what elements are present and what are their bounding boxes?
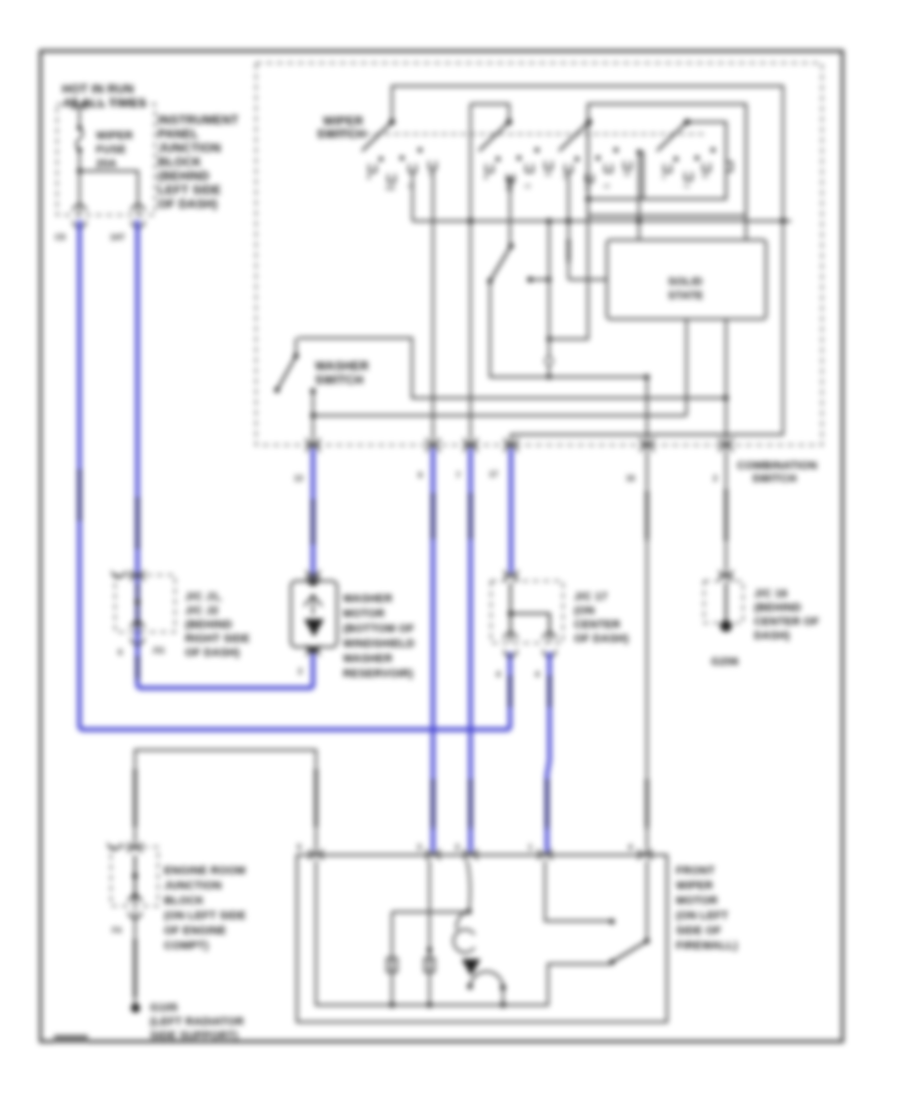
motor connector cups bbox=[310, 849, 323, 860]
wire contact to bus bbox=[412, 172, 414, 221]
motor brush right bbox=[425, 860, 435, 1005]
label instrument panel junction block bbox=[158, 113, 239, 211]
svg-text:J/C 17: J/C 17 bbox=[574, 591, 608, 603]
svg-text:FRONT: FRONT bbox=[676, 865, 715, 877]
wire HI long bbox=[470, 104, 472, 447]
wire relay left pin bbox=[569, 279, 608, 281]
wire blue exit 17 bbox=[509, 448, 513, 573]
wire washer to relay bbox=[313, 415, 687, 417]
svg-text:16: 16 bbox=[626, 474, 635, 483]
label J/C 17 bbox=[574, 591, 629, 645]
bus wire bbox=[413, 220, 792, 222]
wiper switch lever 4 bbox=[637, 119, 691, 155]
svg-text:SWITCH: SWITCH bbox=[752, 473, 797, 485]
wire bus drop bbox=[545, 221, 569, 380]
svg-text:(ON: (ON bbox=[574, 605, 595, 617]
svg-text:+1: +1 bbox=[683, 184, 689, 190]
svg-text:(ON LEFT: (ON LEFT bbox=[676, 910, 728, 922]
rect B washer linked switch bbox=[588, 122, 726, 199]
circuit breaker loop bbox=[454, 912, 506, 1006]
label washer motor bbox=[343, 593, 415, 680]
motor brush left bbox=[387, 912, 397, 1005]
svg-text:C: C bbox=[563, 175, 567, 181]
svg-text:DASH): DASH) bbox=[754, 630, 790, 642]
washer switch contact bbox=[310, 388, 315, 447]
svg-text:WIPER: WIPER bbox=[96, 130, 133, 142]
svg-text:17: 17 bbox=[489, 470, 498, 479]
svg-text:G105: G105 bbox=[150, 1002, 178, 1014]
svg-text:SIDE SUPPORT): SIDE SUPPORT) bbox=[150, 1030, 238, 1042]
svg-text:J/C J1,: J/C J1, bbox=[185, 591, 222, 603]
wire relay pin to exit 16 bbox=[646, 377, 648, 447]
mechanical link dashed bbox=[318, 133, 705, 135]
boundary connector 2 bbox=[720, 438, 733, 452]
svg-text:WASHER: WASHER bbox=[343, 593, 392, 605]
svg-text:6: 6 bbox=[118, 648, 123, 657]
svg-text:4: 4 bbox=[496, 670, 501, 679]
svg-text:WASHER: WASHER bbox=[315, 359, 369, 373]
svg-text:LEFT SIDE: LEFT SIDE bbox=[158, 183, 221, 197]
wire stub node 2 bbox=[527, 277, 549, 283]
svg-text:J/C 16: J/C 16 bbox=[754, 588, 788, 600]
svg-text:2: 2 bbox=[713, 474, 718, 483]
svg-text:INSTRUMENT: INSTRUMENT bbox=[158, 113, 239, 127]
connector C9 bbox=[73, 205, 86, 228]
wire gray exit 2 to ground bbox=[725, 448, 727, 578]
svg-text:SIDE OF: SIDE OF bbox=[676, 925, 721, 937]
svg-text:2: 2 bbox=[455, 843, 460, 852]
svg-text:OF DASH): OF DASH) bbox=[185, 647, 240, 659]
svg-text:SOLID: SOLID bbox=[668, 276, 703, 288]
label front wiper motor bbox=[676, 865, 738, 952]
svg-text:J/C J2: J/C J2 bbox=[185, 605, 219, 617]
switch 4 contacts bbox=[662, 148, 715, 190]
wire INT feed bbox=[509, 176, 511, 246]
switch 1 contacts bbox=[367, 148, 436, 192]
node HOT IN RUN header bbox=[62, 82, 147, 110]
svg-text:(BEHIND: (BEHIND bbox=[185, 619, 232, 631]
svg-text:J11: J11 bbox=[152, 646, 165, 655]
engine room J/B dashed box bbox=[108, 842, 158, 935]
svg-text:20A: 20A bbox=[96, 158, 117, 170]
svg-text:G206: G206 bbox=[711, 656, 739, 668]
wire rectB bottom drop bbox=[549, 199, 588, 339]
boundary connector 7 bbox=[464, 438, 477, 452]
svg-text:4: 4 bbox=[535, 670, 540, 679]
svg-text:(BEHIND: (BEHIND bbox=[754, 602, 801, 614]
wire top feed bbox=[392, 86, 783, 221]
svg-text:F4: F4 bbox=[112, 926, 122, 935]
solid state relay box bbox=[607, 240, 766, 319]
svg-text:(ON LEFT SIDE: (ON LEFT SIDE bbox=[164, 910, 246, 922]
connector 1H7 bbox=[132, 205, 145, 228]
wire INT out bbox=[490, 281, 647, 377]
svg-text:CENTER OF: CENTER OF bbox=[754, 616, 819, 628]
wire riser switch2 bbox=[471, 104, 510, 122]
svg-text:+S: +S bbox=[623, 172, 630, 178]
wire fuse to 1H7 bbox=[80, 171, 139, 215]
connector cup fuse top bbox=[73, 101, 86, 110]
svg-text:BLOCK: BLOCK bbox=[158, 155, 202, 169]
junction connector J/C 16 dashed box bbox=[704, 570, 743, 623]
svg-text:C9: C9 bbox=[55, 233, 66, 242]
wire J/B to ground bbox=[134, 910, 136, 1004]
wire gray exit 16 to motor bbox=[646, 448, 648, 852]
svg-text:WINDSHIELD: WINDSHIELD bbox=[343, 638, 415, 650]
wire blue fuse left run bbox=[80, 220, 511, 730]
svg-text:JUNCTION: JUNCTION bbox=[164, 880, 222, 892]
svg-text:JUNCTION: JUNCTION bbox=[158, 141, 221, 155]
label engine room junction block bbox=[164, 865, 246, 952]
wire LO long bbox=[432, 169, 434, 447]
svg-text:(BEHIND: (BEHIND bbox=[158, 169, 210, 183]
svg-text:+2: +2 bbox=[524, 184, 530, 190]
svg-text:1: 1 bbox=[528, 843, 533, 852]
svg-text:COMBINATION: COMBINATION bbox=[737, 460, 817, 472]
svg-text:13: 13 bbox=[294, 474, 303, 483]
washer switch bbox=[274, 338, 726, 398]
svg-text:+S: +S bbox=[701, 174, 708, 180]
svg-text:MOTOR: MOTOR bbox=[676, 895, 718, 907]
svg-text:C: C bbox=[662, 175, 666, 181]
wire blue J/C17 right out bbox=[547, 652, 550, 852]
svg-text:9: 9 bbox=[418, 471, 423, 480]
terminal on rect B edge bbox=[726, 162, 732, 171]
svg-text:7: 7 bbox=[456, 471, 461, 480]
svg-text:(BOTTOM OF: (BOTTOM OF bbox=[343, 623, 415, 635]
switch 3 contacts bbox=[563, 148, 631, 192]
svg-text:+S: +S bbox=[544, 172, 551, 178]
wire blue exit 7 to motor bbox=[468, 448, 472, 852]
svg-text:4: 4 bbox=[628, 843, 633, 852]
wire blue exit 9 to motor bbox=[431, 448, 435, 852]
svg-text:STATE: STATE bbox=[668, 290, 703, 302]
svg-text:BLOCK: BLOCK bbox=[164, 895, 204, 907]
svg-text:WIPER: WIPER bbox=[676, 880, 713, 892]
svg-text:ENGINE ROOM: ENGINE ROOM bbox=[164, 865, 246, 877]
svg-text:MOTOR: MOTOR bbox=[343, 608, 385, 620]
svg-text:B: B bbox=[484, 175, 488, 181]
wire blue fuse right run bbox=[138, 220, 314, 688]
label J/C J1 bbox=[185, 591, 250, 659]
front wiper motor box bbox=[297, 855, 667, 1022]
engine room junction block bracket bbox=[135, 750, 316, 852]
boundary connector 16 bbox=[641, 438, 654, 452]
watermark bottom left bbox=[54, 1035, 88, 1043]
svg-text:OF ENGINE: OF ENGINE bbox=[164, 925, 226, 937]
wire armature link bbox=[392, 911, 469, 913]
switch 2 contacts bbox=[484, 148, 552, 192]
label combination switch bbox=[737, 460, 817, 485]
svg-text:+2: +2 bbox=[603, 184, 609, 190]
svg-text:3: 3 bbox=[417, 843, 422, 852]
instrument panel junction block dashed box bbox=[57, 104, 155, 215]
svg-text:RESERVOIR): RESERVOIR) bbox=[343, 668, 413, 680]
washer motor bbox=[291, 570, 337, 676]
motor park switch bbox=[545, 860, 650, 965]
svg-text:2: 2 bbox=[298, 667, 303, 676]
junction connector J/C 17 dashed box bbox=[491, 570, 563, 679]
svg-text:RIGHT SIDE: RIGHT SIDE bbox=[185, 633, 250, 645]
boundary connector 13 bbox=[307, 438, 320, 452]
svg-text:+1: +1 bbox=[584, 186, 590, 192]
wiper switch lever 2 bbox=[479, 119, 512, 151]
fuse WIPER 20A bbox=[77, 108, 134, 174]
wire feed right drop bbox=[511, 221, 783, 447]
wire blue J/C17 left out hatch bbox=[508, 676, 512, 706]
wire washer linked to bus bbox=[638, 152, 640, 240]
motor internal ground path bbox=[316, 860, 611, 1005]
svg-text:FIREWALL): FIREWALL) bbox=[676, 940, 738, 952]
wiper switch lever 1 bbox=[362, 119, 395, 151]
label J/C 16 bbox=[754, 588, 819, 642]
INT lever bbox=[487, 178, 513, 284]
boundary connector 17 bbox=[505, 438, 518, 452]
svg-text:FUSE: FUSE bbox=[96, 144, 126, 156]
ground G206 bbox=[711, 620, 739, 668]
wire contact3 to relay bbox=[568, 172, 570, 280]
svg-text:HOT IN RUN: HOT IN RUN bbox=[62, 82, 134, 96]
wire fuse to C9 bbox=[79, 171, 81, 215]
svg-text:PANEL: PANEL bbox=[158, 127, 199, 141]
svg-text:(LEFT RADIATOR: (LEFT RADIATOR bbox=[150, 1016, 244, 1028]
svg-text:WASHER: WASHER bbox=[343, 653, 392, 665]
combination switch dashed box bbox=[256, 63, 822, 445]
wire rectA right to relay box bbox=[745, 216, 747, 241]
boundary connector 9 bbox=[427, 438, 440, 452]
svg-text:OF DASH): OF DASH) bbox=[158, 197, 218, 211]
svg-text:COMPT): COMPT) bbox=[164, 940, 209, 952]
svg-text:1H7: 1H7 bbox=[110, 233, 125, 242]
svg-text:AT ALL TIMES: AT ALL TIMES bbox=[63, 96, 147, 110]
rect A wiper relay outline bbox=[588, 104, 746, 216]
svg-text:SWITCH: SWITCH bbox=[315, 373, 364, 387]
svg-text:WIPER: WIPER bbox=[323, 114, 363, 128]
junction block J1 dashed box bbox=[112, 570, 175, 657]
ground G105 bbox=[131, 1002, 244, 1042]
svg-text:CENTER: CENTER bbox=[574, 619, 620, 631]
svg-text:EW: EW bbox=[386, 186, 396, 192]
wire blue washer motor feed bbox=[311, 448, 315, 578]
wire relay pin washer sense bbox=[686, 319, 688, 416]
svg-text:5: 5 bbox=[297, 843, 302, 852]
wire relay pin ground bbox=[725, 319, 727, 447]
svg-text:B: B bbox=[367, 175, 371, 181]
svg-text:OF DASH): OF DASH) bbox=[574, 633, 629, 645]
wiper switch lever 3 bbox=[559, 119, 592, 151]
label wiper switch bbox=[317, 114, 366, 141]
